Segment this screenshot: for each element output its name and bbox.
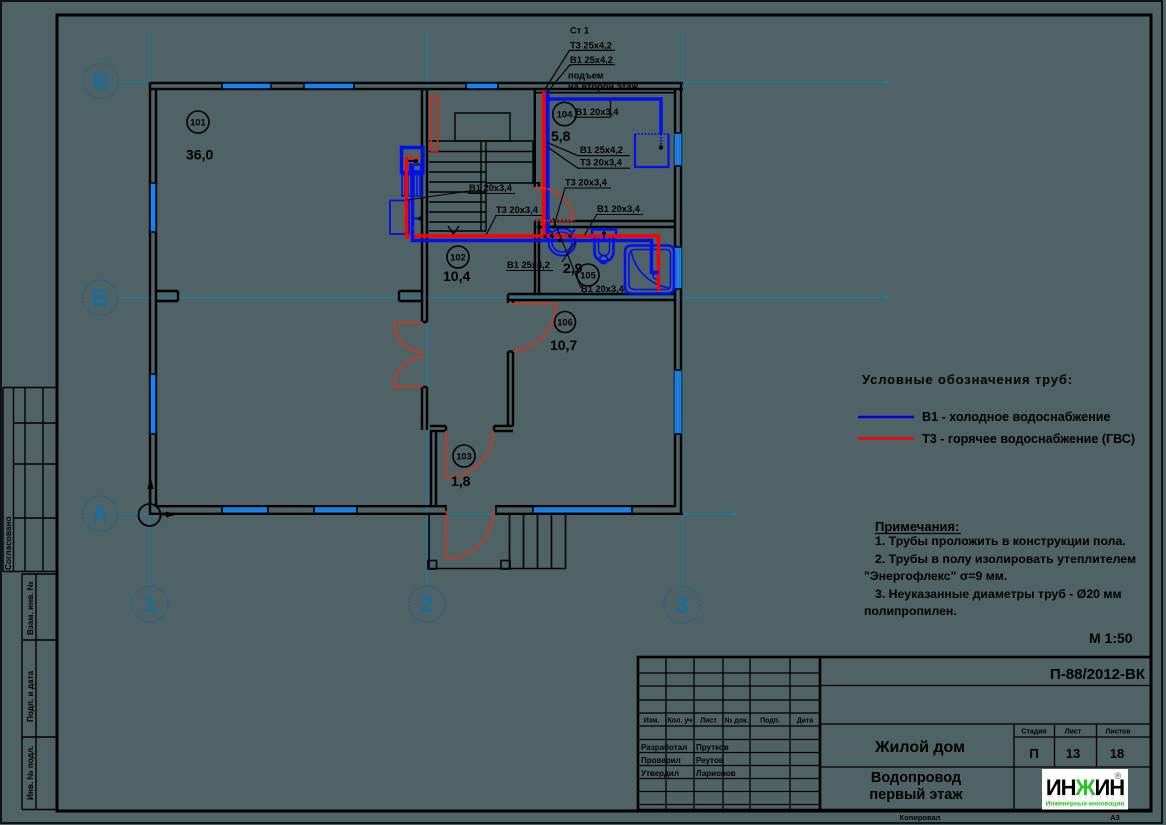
title block right lines: [820, 686, 1151, 811]
axis bubble 1: [132, 586, 168, 622]
svg-text:Лист: Лист: [700, 718, 717, 725]
wall bottom outer line: [150, 513, 683, 515]
riser duct red rect: [431, 96, 438, 151]
svg-text:Разработал: Разработал: [641, 743, 687, 752]
room bubble 103: [453, 445, 475, 467]
axis bubble 2: [409, 586, 445, 622]
axis bubble A: [83, 497, 118, 532]
leader B1 25x4,2 left: [562, 241, 576, 262]
svg-text:2: 2: [421, 591, 434, 617]
pipe B1 main horizontal: [413, 165, 660, 273]
axis line B horizontal: [117, 297, 884, 299]
svg-text:В1 - холодное водоснабжение: В1 - холодное водоснабжение: [922, 410, 1111, 424]
svg-text:"Энергофлекс" σ=9 мм.: "Энергофлекс" σ=9 мм.: [864, 569, 1007, 583]
label B1 25x4,2 top: [569, 55, 615, 65]
svg-text:Подп. и дата: Подп. и дата: [26, 670, 35, 722]
svg-text:В1 25х4,2: В1 25х4,2: [507, 260, 550, 270]
notes text: [864, 534, 1136, 618]
interior wall bathroom top: [537, 221, 675, 227]
wall left inner line: [155, 89, 157, 507]
pipe B1 boiler branch: [549, 99, 661, 134]
svg-text:1,8: 1,8: [451, 473, 471, 489]
svg-text:В1 20х3,4: В1 20х3,4: [576, 107, 620, 117]
corner bathtub: [625, 246, 674, 294]
window jamb caps: [150, 83, 681, 515]
interior wall B stub left: [156, 291, 178, 301]
interior wall bath left column: [535, 90, 539, 294]
svg-text:М 1:50: М 1:50: [1089, 630, 1133, 646]
wall right outer line: [680, 82, 682, 515]
svg-text:Стадия: Стадия: [1021, 729, 1046, 736]
toilet 105: [592, 230, 616, 264]
kitchen sink unit: [402, 148, 424, 173]
wall top outer line: [150, 82, 683, 84]
stair left flight treads: [429, 172, 486, 231]
wash basin 105: [549, 229, 576, 256]
left stamp: lower boxes: [22, 574, 56, 810]
wall top inner line: [150, 88, 683, 90]
svg-text:А3: А3: [1110, 813, 1120, 822]
axis line 3 vertical: [681, 32, 683, 587]
stair full width treads: [429, 141, 533, 162]
label B1 25x4,2 left: [506, 260, 553, 271]
left stamp: soglasovano table: [3, 388, 56, 572]
label B1 20x3,4 boxed: [574, 101, 620, 118]
leader T3 20x3,4 door: [553, 188, 565, 229]
axis line V horizontal: [118, 81, 884, 83]
svg-text:А: А: [92, 501, 109, 527]
north origin marker: [139, 488, 169, 526]
stage values: [1029, 746, 1124, 761]
title block signatures: [641, 743, 736, 778]
svg-text:подъем: подъем: [568, 71, 604, 81]
porch: [428, 515, 566, 569]
label T3 25x4,2 top: [569, 41, 615, 51]
svg-text:Т3 20х3,4: Т3 20х3,4: [496, 205, 539, 215]
stair landing: [455, 113, 510, 141]
svg-text:Условные обозначения труб:: Условные обозначения труб:: [862, 372, 1073, 387]
svg-text:103: 103: [456, 452, 472, 462]
window glazing left wall: [152, 183, 154, 434]
svg-text:102: 102: [450, 253, 466, 263]
svg-text:101: 101: [190, 117, 206, 127]
door D5 double door: [394, 323, 424, 387]
svg-text:13: 13: [1066, 746, 1080, 761]
interior wall wc103 left: [431, 431, 436, 506]
pipe kitchen junction dot: [414, 159, 418, 163]
svg-text:на второй этаж: на второй этаж: [568, 82, 638, 92]
room bubble 104: [553, 102, 576, 125]
title block left rows: [638, 673, 820, 805]
axis bubble B: [83, 281, 118, 316]
pipe B1 riser vertical: [546, 91, 550, 241]
interior wall stair column: [422, 89, 427, 430]
svg-text:36,0: 36,0: [186, 147, 213, 163]
svg-text:Инженерные инновации: Инженерные инновации: [1046, 801, 1124, 808]
door D3 wc103: [446, 431, 493, 479]
svg-text:Т3 25х4,2: Т3 25х4,2: [570, 41, 612, 51]
label T3 20x3,4 door: [564, 178, 611, 189]
svg-text:В1 20х3,4: В1 20х3,4: [469, 183, 513, 193]
svg-text:В: В: [93, 68, 110, 94]
wall left outer line: [149, 82, 151, 515]
svg-text:10,4: 10,4: [443, 268, 470, 284]
svg-text:1: 1: [144, 591, 157, 617]
svg-text:Т3 20х3,4: Т3 20х3,4: [580, 158, 623, 168]
pipe B1 kitchen stub: [413, 217, 421, 219]
label B1 20x3,4 bath: [580, 284, 627, 295]
stair right flight edge: [532, 141, 534, 183]
svg-text:Согласовано: Согласовано: [3, 516, 13, 570]
label B1 20x3,4 right: [596, 204, 643, 215]
axis bubble V: [84, 64, 119, 99]
svg-text:Б: Б: [92, 285, 109, 311]
svg-text:П-88/2012-ВК: П-88/2012-ВК: [1050, 666, 1146, 683]
leader T3 20x3,4 stair: [486, 216, 496, 235]
legend T3 line: [858, 437, 914, 440]
sheet name: [869, 770, 963, 803]
svg-text:Реутов: Реутов: [696, 756, 724, 765]
title block left columns: [666, 657, 790, 810]
room bubble 101: [187, 111, 209, 133]
door D1 room104: [535, 188, 574, 222]
svg-text:Подп.: Подп.: [760, 718, 780, 725]
pipe B1 toilet stub: [603, 232, 605, 240]
room104 top inner wall line: [536, 92, 674, 94]
axis line 1 vertical: [149, 32, 151, 586]
svg-text:полипропилен.: полипропилен.: [864, 604, 957, 618]
svg-text:Лист: Лист: [1065, 729, 1082, 736]
svg-text:В1 20х3,4: В1 20х3,4: [597, 204, 641, 214]
svg-text:Т3 - горячее водоснабжение (ГВ: Т3 - горячее водоснабжение (ГВС): [922, 432, 1135, 446]
svg-text:18: 18: [1110, 746, 1124, 761]
leader B1 20x3,4 right: [584, 214, 597, 236]
axis bubble 3: [664, 587, 700, 623]
stair lower wall line: [486, 182, 539, 184]
svg-text:ИНЖИН: ИНЖИН: [1046, 775, 1124, 800]
walls: [150, 82, 683, 515]
boiler dashed square: [635, 134, 669, 167]
svg-text:3: 3: [676, 592, 689, 618]
room bubble 105: [577, 264, 599, 286]
title block outline: [638, 657, 1151, 810]
svg-text:Листов: Листов: [1105, 729, 1131, 736]
leader B1 20x3,4 bath: [553, 218, 581, 288]
svg-text:2. Трубы в полу изолировать ут: 2. Трубы в полу изолировать утеплителем: [875, 552, 1136, 566]
svg-text:Водопровод: Водопровод: [871, 770, 961, 786]
svg-text:Ст 1: Ст 1: [570, 26, 589, 36]
label podjem: [568, 71, 638, 92]
window glazing right wall: [676, 133, 681, 434]
svg-text:104: 104: [557, 109, 573, 119]
leader B1 20x3,4 stair: [407, 191, 469, 200]
window glazing top wall: [222, 85, 498, 87]
axis line A horizontal: [117, 513, 732, 515]
room bubble 102: [447, 246, 469, 268]
door D2 room106: [509, 304, 556, 352]
label T3 20x3,4 stair: [495, 205, 542, 216]
axis line 2 vertical: [426, 32, 428, 586]
notes heading: [875, 519, 961, 534]
svg-text:106: 106: [557, 318, 573, 328]
title block header texts: [644, 717, 813, 725]
svg-text:первый этаж: первый этаж: [869, 787, 963, 803]
logo box: [1042, 769, 1128, 813]
interior wall B stub right: [399, 291, 422, 301]
svg-text:Примечания:: Примечания:: [875, 519, 959, 534]
window glazing bottom wall: [222, 508, 632, 511]
svg-text:П: П: [1029, 746, 1038, 761]
svg-text:В1 25х4,2: В1 25х4,2: [580, 145, 623, 155]
leader B1 25x4,2 mid: [546, 142, 578, 156]
legend B1 line: [858, 416, 914, 419]
svg-text:5,8: 5,8: [551, 128, 571, 144]
pipe junction dots at sink: [550, 234, 554, 238]
svg-text:Проверил: Проверил: [641, 756, 681, 765]
stair stringer: [481, 141, 486, 231]
label T3 20x3,4 mid: [578, 158, 630, 169]
label B1 20x3,4 stair: [468, 183, 515, 194]
interior wall room106 left: [508, 300, 513, 426]
svg-text:10,7: 10,7: [550, 337, 577, 353]
kitchen appliance striped: [402, 175, 422, 197]
svg-text:Жилой дом: Жилой дом: [874, 739, 965, 756]
svg-text:Кол. уч: Кол. уч: [668, 718, 693, 725]
washing machine: [390, 201, 409, 235]
wall right inner line: [674, 89, 676, 507]
stair walk arrow: [448, 226, 459, 234]
svg-text:Дата: Дата: [797, 718, 813, 725]
stage header: [1021, 729, 1131, 736]
label B1 25x4,2 mid: [578, 145, 630, 156]
pipe T3 main horizontal: [407, 157, 659, 291]
svg-text:В1 25х4,2: В1 25х4,2: [570, 55, 613, 65]
axis grid lines: [117, 32, 887, 587]
wall bottom inner line: [156, 505, 675, 507]
svg-text:Инв. № подл.: Инв. № подл.: [26, 746, 35, 800]
svg-text:105: 105: [580, 271, 596, 281]
svg-text:Взам. инв. №: Взам. инв. №: [26, 581, 35, 635]
svg-text:1. Трубы проложить в конструкц: 1. Трубы проложить в конструкции пола.: [875, 534, 1126, 548]
svg-text:Копировал: Копировал: [900, 813, 941, 822]
leader T3 20x3,4 mid: [546, 146, 578, 168]
room bubble 106: [555, 312, 576, 333]
interior wall wc103 top: [430, 426, 513, 431]
svg-text:Т3 20х3,4: Т3 20х3,4: [565, 178, 608, 188]
svg-text:Изм.: Изм.: [644, 718, 660, 725]
svg-text:№ док.: № док.: [725, 717, 749, 725]
svg-text:Утвердил: Утвердил: [641, 769, 679, 778]
door D4 entrance: [446, 511, 493, 559]
interior wall bathroom bottom: [508, 294, 675, 300]
pipe T3 riser vertical: [542, 91, 546, 236]
svg-text:Ларионов: Ларионов: [696, 769, 736, 778]
svg-text:3. Неуказанные диаметры труб -: 3. Неуказанные диаметры труб - Ø20 мм: [875, 587, 1122, 601]
svg-text:Прутков: Прутков: [696, 743, 729, 752]
staircase: [429, 113, 533, 234]
leader st1: [544, 50, 570, 91]
svg-text:®: ®: [1115, 771, 1122, 781]
